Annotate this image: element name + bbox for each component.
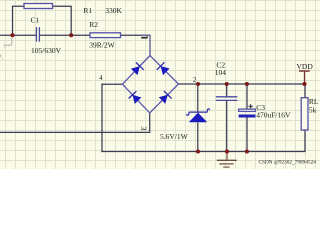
svg-text:2: 2	[193, 77, 197, 84]
svg-text:C1: C1	[31, 16, 40, 25]
svg-text:3: 3	[139, 126, 149, 130]
svg-text:330K: 330K	[105, 6, 122, 15]
svg-text:5k: 5k	[309, 106, 317, 115]
svg-text:470uF/16V: 470uF/16V	[256, 110, 291, 119]
svg-text:CSDN @92302_79894524: CSDN @92302_79894524	[259, 160, 317, 166]
svg-text:R2: R2	[89, 20, 98, 29]
svg-text:VDD: VDD	[297, 62, 314, 71]
svg-text:R1: R1	[83, 6, 92, 15]
svg-text:5.6V/1W: 5.6V/1W	[160, 132, 189, 141]
svg-text:39R/2W: 39R/2W	[89, 41, 115, 50]
svg-text:104: 104	[215, 68, 227, 77]
svg-text:4: 4	[99, 75, 103, 82]
svg-text:105/630V: 105/630V	[31, 46, 62, 55]
